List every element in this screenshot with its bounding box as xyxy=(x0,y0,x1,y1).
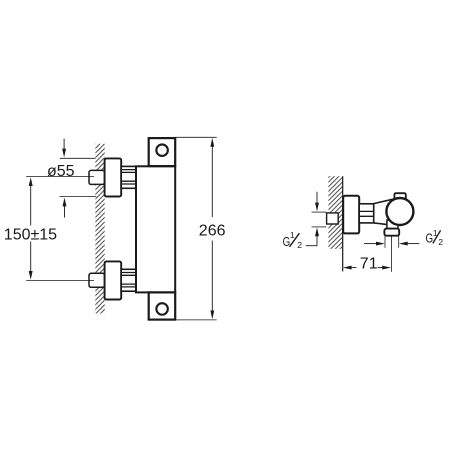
dimension ø55 bottom extension line xyxy=(60,196,97,198)
svg-text:1: 1 xyxy=(290,230,295,240)
dimension 150±15 bottom extension line xyxy=(26,279,94,281)
dimension 71 line with arrows xyxy=(343,266,391,270)
dimension 150±15 top extension line xyxy=(26,176,94,178)
valve body cone xyxy=(374,199,395,225)
side union ribs xyxy=(359,204,374,223)
dimension 266 top extension line xyxy=(175,136,216,138)
wall hatch (side view) xyxy=(328,176,342,249)
bottom union ribs xyxy=(121,269,136,291)
nut extension lines xyxy=(384,236,386,248)
bottom escutcheon xyxy=(105,261,122,299)
top supply square xyxy=(89,170,105,184)
dimension ø55 lower arrow xyxy=(63,198,67,218)
wall hatch (front view) xyxy=(95,144,104,314)
left G1/2 arrow down xyxy=(315,192,319,212)
svg-text:2: 2 xyxy=(297,240,302,250)
svg-text:ø55: ø55 xyxy=(47,163,75,180)
right G1/2 right arrow xyxy=(399,242,420,246)
mixer body (front) xyxy=(136,166,175,292)
dimension 150±15 line with arrows xyxy=(29,177,33,280)
svg-text:266: 266 xyxy=(199,223,226,240)
dimension 266 bottom extension line xyxy=(176,319,217,321)
wall face line (side view) xyxy=(342,176,344,271)
left G1/2 label xyxy=(283,230,303,250)
side supply square xyxy=(327,213,339,224)
svg-text:71: 71 xyxy=(360,256,378,273)
bottom mounting tab xyxy=(149,292,176,319)
svg-text:2: 2 xyxy=(438,237,443,247)
top union ribs xyxy=(121,166,136,188)
outlet center line xyxy=(390,236,392,272)
dimension ø55 top extension line xyxy=(60,157,96,159)
top mounting tab xyxy=(149,138,176,166)
temperature lever tab xyxy=(394,193,405,202)
top tab hole xyxy=(156,144,168,156)
outlet neck xyxy=(387,220,398,229)
bottom supply square xyxy=(89,273,105,287)
dimension ø55 upper arrow xyxy=(62,139,66,158)
outlet nut xyxy=(384,229,399,236)
top escutcheon xyxy=(105,158,122,196)
svg-text:150±15: 150±15 xyxy=(4,226,57,243)
knob circle xyxy=(386,198,413,225)
left G1/2 extension lines xyxy=(312,211,327,213)
bottom tab hole xyxy=(156,303,168,315)
right G1/2 label xyxy=(426,228,444,247)
right G1/2 left arrow xyxy=(364,242,385,246)
dimension 266 line with arrows xyxy=(210,138,214,319)
side escutcheon xyxy=(343,196,359,234)
left G1/2 arrow up with leader xyxy=(306,228,319,246)
